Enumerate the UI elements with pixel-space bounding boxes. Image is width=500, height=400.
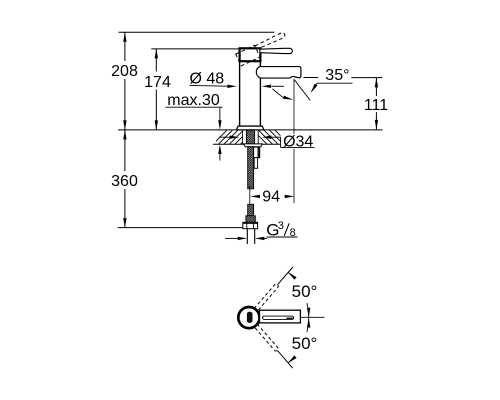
- svg-text:360: 360: [111, 173, 138, 190]
- svg-text:8: 8: [290, 227, 296, 239]
- svg-text:max.30: max.30: [167, 92, 220, 109]
- svg-text:3: 3: [278, 220, 284, 232]
- svg-text:208: 208: [111, 63, 138, 80]
- svg-text:50°: 50°: [292, 334, 318, 353]
- svg-text:35°: 35°: [325, 67, 349, 84]
- svg-text:111: 111: [364, 97, 388, 114]
- svg-text:Ø34: Ø34: [283, 133, 313, 150]
- svg-text:174: 174: [144, 74, 171, 91]
- svg-text:50°: 50°: [292, 282, 318, 301]
- svg-text:Ø 48: Ø 48: [189, 71, 224, 88]
- svg-text:94: 94: [262, 189, 280, 206]
